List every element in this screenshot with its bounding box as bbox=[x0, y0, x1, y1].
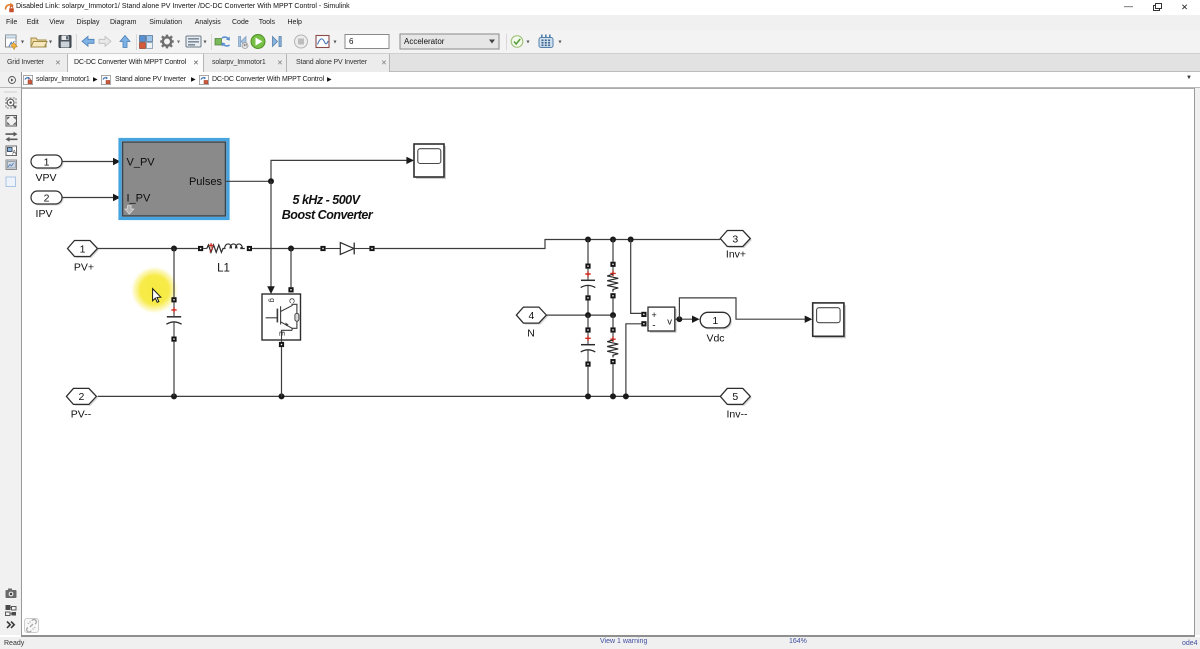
stop time field bbox=[345, 35, 389, 49]
conn port Inv+ (3) bbox=[720, 231, 752, 261]
svg-text:1: 1 bbox=[80, 243, 86, 255]
svg-text:Inv+: Inv+ bbox=[726, 249, 746, 261]
IGBT Q1 bbox=[262, 294, 301, 340]
wire v+ sense bbox=[631, 240, 642, 314]
broken link badge bottom-left of canvas bbox=[24, 618, 39, 633]
svg-text:v: v bbox=[667, 317, 672, 328]
svg-text:I_PV: I_PV bbox=[127, 193, 152, 205]
diode D bbox=[320, 243, 374, 255]
capacitor branch C1 (upper) bbox=[581, 240, 596, 316]
svg-text:VPV: VPV bbox=[35, 172, 56, 184]
resistor branch R1 (upper) bbox=[607, 240, 618, 316]
toolbar bbox=[0, 30, 1200, 54]
wire mid rail bbox=[546, 312, 616, 318]
wire PV+ rail bbox=[98, 246, 199, 252]
svg-text:Boost Converter: Boost Converter bbox=[282, 208, 374, 222]
series RLC branch L1 bbox=[198, 243, 252, 274]
conn port PV-- (2) bbox=[66, 388, 98, 420]
svg-text:3: 3 bbox=[732, 233, 738, 245]
back arrow bbox=[82, 36, 94, 46]
voltage measurement U_V bbox=[641, 307, 676, 333]
chevrons bbox=[7, 622, 14, 628]
wire IGBT emitter bbox=[279, 340, 284, 396]
stop button (disabled) bbox=[295, 35, 308, 48]
run button bbox=[251, 35, 265, 49]
wire top rail right bbox=[375, 237, 721, 249]
capacitor branch C2 (lower) bbox=[581, 315, 596, 396]
camera bbox=[6, 589, 17, 599]
capacitor branch Cin (left) bbox=[166, 249, 181, 397]
wire v out to Vdc bbox=[675, 316, 700, 323]
signal arrows bbox=[6, 132, 18, 142]
svg-text:+: + bbox=[652, 310, 657, 320]
breadcrumb bar bbox=[0, 72, 1200, 88]
open folder bbox=[31, 38, 52, 47]
library browser icon bbox=[140, 36, 153, 49]
model settings icon bbox=[186, 36, 207, 47]
svg-text:4: 4 bbox=[528, 310, 534, 322]
zoom tool bbox=[6, 98, 16, 108]
mouse cursor bbox=[153, 289, 161, 303]
inport IPV (2) bbox=[31, 191, 64, 220]
conn port Inv-- (5) bbox=[720, 388, 752, 420]
wire L1 to diode bbox=[252, 246, 320, 252]
up arrow bbox=[120, 36, 130, 48]
step forward bbox=[273, 37, 282, 47]
wire VPV to V_PV bbox=[62, 158, 121, 165]
title bar bbox=[0, 0, 1200, 15]
advisor check bbox=[511, 36, 529, 48]
blocks icon bbox=[6, 605, 17, 616]
step back (disabled-ish) bbox=[239, 37, 249, 49]
wire bottom rail bbox=[98, 393, 721, 399]
build icon bbox=[539, 35, 562, 48]
wire v- sense bbox=[626, 324, 641, 397]
svg-text:2: 2 bbox=[44, 192, 50, 204]
update model icon bbox=[215, 37, 230, 47]
svg-text:C: C bbox=[288, 298, 297, 304]
accelerator combo bbox=[400, 34, 499, 49]
svg-text:g: g bbox=[268, 298, 277, 302]
svg-text:1: 1 bbox=[712, 315, 718, 327]
left sidebar bbox=[0, 88, 21, 635]
yellow search highlight bbox=[0, 0, 1, 1]
svg-text:A: A bbox=[12, 151, 16, 157]
new model icon bbox=[6, 35, 25, 50]
blue square bbox=[6, 177, 16, 187]
wire IGBT collector bbox=[288, 249, 293, 293]
svg-text:V_PV: V_PV bbox=[127, 157, 156, 169]
svg-text:2: 2 bbox=[78, 391, 84, 403]
inport VPV (1) bbox=[31, 155, 64, 184]
svg-text:Vdc: Vdc bbox=[706, 333, 724, 345]
conn port PV+ (1) bbox=[68, 241, 100, 274]
scope Pulses bbox=[414, 144, 446, 179]
menu bar bbox=[0, 15, 1200, 30]
svg-text:Pulses: Pulses bbox=[189, 176, 223, 188]
svg-text:PV+: PV+ bbox=[74, 262, 94, 274]
svg-text:Accelerator: Accelerator bbox=[404, 37, 445, 46]
viewmark icon bbox=[6, 160, 17, 170]
svg-text:E: E bbox=[278, 331, 287, 336]
annotation: 5 kHz - 500V Boost Converter bbox=[282, 193, 374, 222]
svg-text:PV--: PV-- bbox=[71, 409, 92, 421]
save floppy bbox=[59, 36, 71, 48]
wire v out to scope bbox=[679, 298, 812, 323]
svg-text:Inv--: Inv-- bbox=[727, 409, 749, 421]
svg-text:L1: L1 bbox=[217, 263, 230, 275]
svg-text:1: 1 bbox=[44, 156, 50, 168]
sdi / scope icon bbox=[316, 36, 337, 48]
status bar bbox=[0, 637, 1200, 649]
conn port N (4) bbox=[516, 307, 548, 339]
wire IGBT gate bbox=[267, 181, 275, 294]
scope Vdc bbox=[813, 303, 846, 338]
svg-text:6: 6 bbox=[349, 37, 354, 46]
wire IPV to I_PV bbox=[62, 194, 121, 201]
outport Vdc (1) bbox=[700, 312, 732, 344]
fit to view bbox=[6, 116, 17, 127]
svg-text:IPV: IPV bbox=[36, 208, 53, 220]
annotation image icon bbox=[6, 146, 17, 157]
MPPT controller subsystem block (selected, disabled link) bbox=[120, 140, 228, 219]
forward arrow (disabled) bbox=[99, 36, 111, 46]
wire Pulses bbox=[226, 157, 414, 185]
gear bbox=[160, 35, 180, 49]
resistor branch R2 (lower) bbox=[607, 315, 618, 396]
svg-text:N: N bbox=[527, 328, 535, 340]
svg-text:5 kHz - 500V: 5 kHz - 500V bbox=[293, 193, 362, 207]
svg-text:5: 5 bbox=[732, 391, 738, 403]
tab bar bbox=[0, 54, 1200, 72]
canvas borders bbox=[21, 88, 1195, 89]
svg-text:-: - bbox=[652, 321, 655, 332]
